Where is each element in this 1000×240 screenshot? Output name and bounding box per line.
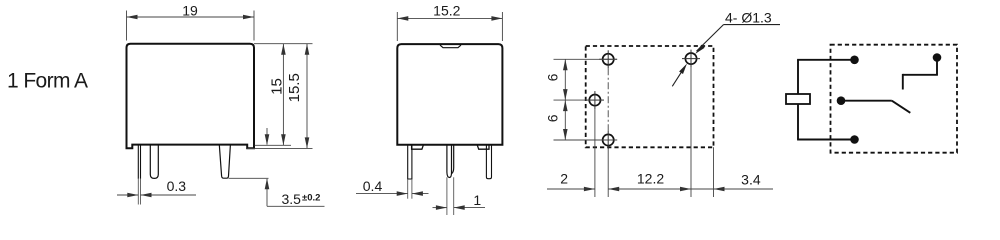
movable contact blade (open): [892, 101, 911, 113]
bottom dimension line: 2: [547, 188, 595, 190]
wire: coil top lead: [797, 60, 799, 94]
top vent notch: [440, 45, 461, 48]
dimension 3.5 upper arrow: [266, 128, 268, 145]
dimension 15.2 extension lines: [396, 12, 398, 41]
hole D (top-right) circle: [685, 53, 696, 64]
hole C (bottom-left) circle: [603, 134, 614, 145]
center blade pin 1mm (front view): [447, 145, 452, 178]
coil pin extension lines: [137, 179, 139, 205]
svg-text:±0.2: ±0.2: [302, 193, 320, 204]
left mounting foot (front view): [412, 145, 424, 149]
wire: fixed contact horizontal: [903, 74, 938, 76]
svg-text:19: 19: [182, 3, 198, 19]
svg-text:1: 1: [473, 192, 481, 208]
dimension 19 extension lines: [126, 11, 128, 41]
bottom dimension line: segment between 691 and 713.5: [691, 188, 714, 190]
svg-text:15.5: 15.5: [286, 73, 303, 102]
centerline between holes A and C (dash-dot): [607, 68, 609, 131]
svg-text:6: 6: [545, 114, 561, 122]
extension line at pin bottom: [229, 177, 269, 179]
dimension 3.5 lower arrow and leader: [266, 179, 268, 206]
dimension 0.4 line and arrows: [356, 193, 408, 195]
dimension 15 line and arrows: [282, 44, 284, 146]
coil symbol: [786, 94, 810, 104]
right pin (front view): [486, 145, 491, 179]
bottom dimension line: 3.4 tail: [714, 188, 774, 190]
leader line from hole D (lower): [672, 67, 684, 86]
hole B (middle-left) crosshair: [586, 99, 604, 101]
hole C (bottom-left) crosshair: [599, 139, 617, 141]
terminal 4 (NO contact, top-right dot): [933, 53, 942, 62]
second coil pin (side view, rounded tip): [150, 145, 158, 179]
dimension 0.3 line and arrows: [117, 194, 138, 196]
wire: top to terminal 1: [797, 59, 854, 61]
dimension 15.2 line and arrows: [397, 17, 502, 19]
contact blade pin (side view, rounded tip): [219, 145, 230, 179]
svg-text:1 Form A: 1 Form A: [7, 69, 88, 92]
dimension 19 line and arrows: [127, 16, 255, 18]
extension line at hole C row: [554, 139, 618, 141]
leader line to hole D (upper): [697, 25, 724, 51]
wire: bottom to terminal 2: [797, 139, 854, 141]
centerline from hole C down to bottom dimension: [607, 149, 609, 197]
svg-text:3.4: 3.4: [741, 172, 761, 188]
svg-text:0.3: 0.3: [167, 178, 187, 194]
centerline from hole D down to bottom dimension: [690, 68, 692, 197]
extension line at foot bottom (right): [247, 147, 312, 149]
terminal 2 (coil, bottom-left dot): [850, 135, 859, 144]
terminal 1 (coil, top-left dot): [850, 56, 859, 65]
svg-text:2: 2: [560, 171, 568, 187]
coil pin extension lines: [407, 179, 409, 199]
relay body outline (front view) with mounting feet: [397, 44, 502, 145]
extension line at body bottom (right): [255, 144, 291, 146]
coil pin 0.3 (side view): [137, 145, 139, 179]
PCB footprint dashed outline: [586, 46, 714, 147]
center pin extension lines: [446, 177, 448, 215]
wire: movable contact arm: [841, 100, 892, 102]
svg-text:15.2: 15.2: [433, 3, 460, 19]
svg-text:3.5: 3.5: [282, 191, 302, 207]
extension line at body top (right): [254, 43, 313, 45]
svg-text:4- Ø1.3: 4- Ø1.3: [725, 10, 772, 26]
svg-text:0.4: 0.4: [363, 178, 383, 194]
svg-text:12.2: 12.2: [637, 171, 664, 187]
right mounting foot (front view): [477, 145, 489, 149]
dimension 15.5 line and arrows: [306, 44, 308, 149]
coil pin 0.4 (front view): [408, 145, 412, 179]
bottom dimension line: 12.2: [608, 188, 691, 190]
dimension 1 line and arrows: [433, 207, 447, 209]
terminal 3 (common, middle dot): [837, 96, 846, 105]
centerline from hole B down to bottom dimension: [594, 109, 596, 197]
schematic dashed box: [831, 45, 958, 153]
center blade pin right edge chamfer: [452, 145, 454, 174]
extension line at hole A row: [554, 58, 618, 60]
wire: fixed contact stub: [902, 74, 904, 90]
svg-text:15: 15: [269, 78, 286, 95]
wire: coil bottom lead: [797, 104, 799, 140]
svg-text:6: 6: [545, 73, 561, 81]
relay body outline (side view) with mounting feet: [127, 44, 255, 149]
hole D (top-right) crosshair: [682, 58, 700, 60]
wire: fixed contact vertical from terminal 4: [936, 58, 938, 75]
hole A (top-left) circle: [603, 54, 614, 65]
extension line at hole B row: [554, 99, 605, 101]
hole B (middle-left) circle: [589, 95, 600, 106]
extension line from dashed outline right edge: [713, 147, 715, 197]
vertical dimension line 6/6 with arrows: [564, 59, 566, 140]
hole A (top-left) crosshair: [599, 58, 617, 60]
